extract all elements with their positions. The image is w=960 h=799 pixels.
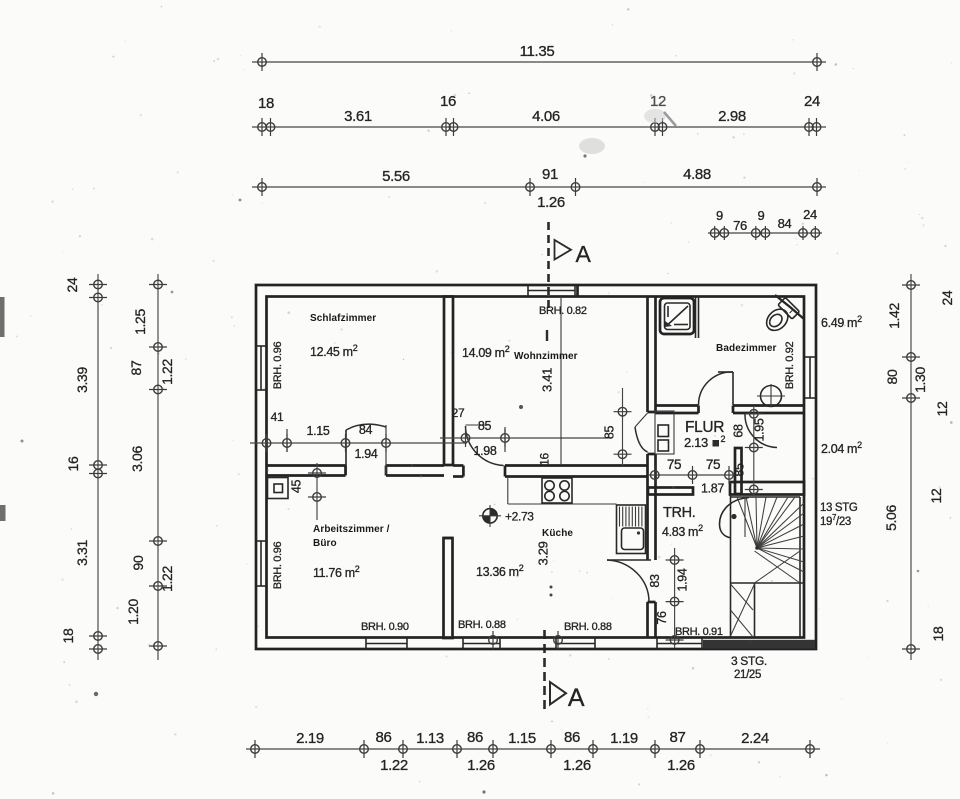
svg-text:85: 85 bbox=[603, 426, 617, 440]
left dim chain 1.25/87/3.06/90/1.20 with 1.22 bbox=[157, 274, 159, 660]
svg-text:1.22: 1.22 bbox=[159, 566, 175, 592]
svg-text:A: A bbox=[576, 241, 592, 267]
wall flur/WC bbox=[735, 448, 742, 494]
svg-text:1.15: 1.15 bbox=[307, 424, 330, 438]
door flur-badezimmer bbox=[732, 372, 734, 405]
svg-text:1.26: 1.26 bbox=[667, 757, 695, 774]
wall flur south bbox=[648, 488, 693, 495]
dim flur 75/75 and 1.87 bbox=[648, 474, 741, 476]
svg-text:80: 80 bbox=[884, 369, 900, 384]
svg-text:1.13: 1.13 bbox=[416, 730, 444, 747]
kueche 3.29 marks bbox=[550, 586, 553, 589]
svg-text:3.06: 3.06 bbox=[129, 446, 145, 472]
dim arbeitszimmer oven 45 bbox=[316, 463, 318, 520]
window arbeitszimmer (left wall, BRH 0.96) bbox=[260, 541, 262, 586]
svg-text:BRH. 0.88: BRH. 0.88 bbox=[458, 619, 506, 631]
svg-text:1.22: 1.22 bbox=[159, 359, 175, 385]
svg-text:76: 76 bbox=[655, 611, 669, 625]
shower/appliance badezimmer bbox=[660, 298, 694, 334]
svg-text:Badezimmer: Badezimmer bbox=[716, 343, 776, 354]
dim chain 18/3.61/16/4.06/12/2.98/24 bbox=[252, 126, 826, 128]
svg-text:41: 41 bbox=[271, 410, 284, 424]
svg-text:1.22: 1.22 bbox=[380, 757, 408, 774]
svg-text:76: 76 bbox=[733, 218, 747, 233]
svg-text:1.19: 1.19 bbox=[610, 730, 638, 747]
svg-text:5.56: 5.56 bbox=[382, 168, 410, 185]
wall wohnzimmer/kueche with door opening bbox=[453, 464, 463, 467]
svg-text:5.06: 5.06 bbox=[883, 505, 899, 531]
svg-text:91: 91 bbox=[542, 166, 558, 183]
pier mark right of top window bbox=[576, 285, 579, 297]
svg-text:+2.73: +2.73 bbox=[505, 510, 534, 524]
window wohnzimmer (top wall, BRH 0.82) bbox=[528, 290, 575, 292]
svg-text:18: 18 bbox=[930, 626, 946, 641]
svg-text:68: 68 bbox=[732, 424, 746, 438]
svg-text:BRH. 0.88: BRH. 0.88 bbox=[564, 621, 612, 633]
svg-text:1.94: 1.94 bbox=[355, 447, 378, 461]
svg-text:27: 27 bbox=[452, 406, 465, 420]
svg-text:84: 84 bbox=[359, 423, 373, 437]
chimney symbol kueche bbox=[483, 509, 497, 523]
dim kueche-TRH door 83/1.94/76 (vertical) bbox=[674, 548, 676, 648]
door wohnzimmer-flur (85) bbox=[635, 413, 648, 427]
svg-text:2.19: 2.19 bbox=[296, 730, 324, 747]
svg-text:18: 18 bbox=[60, 628, 76, 643]
svg-text:1.42: 1.42 bbox=[886, 303, 902, 329]
section line A (bottom) bbox=[543, 630, 546, 712]
svg-text:24: 24 bbox=[939, 290, 955, 305]
dim WC door 68/1.95/85 (vertical) bbox=[753, 406, 755, 496]
svg-text:Küche: Küche bbox=[542, 528, 573, 539]
svg-text:1.98: 1.98 bbox=[474, 444, 497, 458]
svg-text:19: 19 bbox=[820, 516, 832, 528]
svg-text:TRH.: TRH. bbox=[663, 505, 695, 521]
svg-text:/23: /23 bbox=[836, 516, 851, 528]
left dim chain 24/3.39/16/3.31/18 bbox=[97, 274, 99, 660]
right dim chain 1.42/80/5.06 and 24/1.30/12/12/18 bbox=[910, 274, 912, 660]
svg-text:75: 75 bbox=[667, 457, 681, 472]
wall schlafzimmer/wohnzimmer bbox=[444, 297, 453, 466]
svg-text:BRH. 0.91: BRH. 0.91 bbox=[675, 626, 723, 638]
svg-text:24: 24 bbox=[804, 93, 820, 110]
kueche sink unit bbox=[617, 505, 646, 554]
svg-text:3.29: 3.29 bbox=[536, 541, 551, 565]
svg-text:16: 16 bbox=[65, 456, 81, 471]
svg-text:86: 86 bbox=[467, 729, 483, 746]
svg-text:24: 24 bbox=[64, 277, 80, 292]
winder stair TRH bbox=[730, 494, 732, 638]
svg-text:1.26: 1.26 bbox=[563, 757, 591, 774]
svg-text:2.04 m2: 2.04 m2 bbox=[821, 440, 862, 456]
door kueche-TRH bbox=[607, 559, 651, 561]
lower flight 3 STG bbox=[731, 584, 755, 636]
svg-text:1.15: 1.15 bbox=[508, 730, 536, 747]
svg-text:6.49 m2: 6.49 m2 bbox=[821, 314, 862, 330]
svg-text:BRH. 0.96: BRH. 0.96 bbox=[272, 341, 284, 389]
svg-text:1.94: 1.94 bbox=[676, 568, 690, 591]
svg-text:A: A bbox=[568, 684, 585, 712]
wohnzimmer interior line + 3.41 bbox=[560, 297, 562, 466]
stair curve + newel bbox=[720, 498, 750, 539]
svg-text:1.26: 1.26 bbox=[467, 757, 495, 774]
svg-text:75: 75 bbox=[706, 457, 720, 472]
svg-text:3.41: 3.41 bbox=[540, 368, 555, 392]
section marker triangle A bottom bbox=[550, 682, 566, 705]
svg-text:87: 87 bbox=[670, 729, 686, 746]
svg-text:2.98: 2.98 bbox=[718, 108, 746, 125]
ticks on bottom wall bbox=[489, 636, 498, 645]
svg-text:86: 86 bbox=[564, 729, 580, 746]
svg-text:21/25: 21/25 bbox=[734, 669, 761, 681]
toilet badezimmer (rotated 45) bbox=[762, 297, 800, 335]
wall badezimmer south bbox=[656, 404, 699, 407]
svg-text:3.61: 3.61 bbox=[344, 108, 372, 125]
svg-text:13 STG: 13 STG bbox=[820, 502, 858, 514]
oven arbeitszimmer bbox=[268, 478, 289, 499]
svg-text:BRH. 0.82: BRH. 0.82 bbox=[539, 305, 587, 317]
svg-text:BRH. 0.96: BRH. 0.96 bbox=[272, 541, 284, 589]
svg-text:85: 85 bbox=[478, 419, 492, 433]
dim wohnzimmer-flur door 85 (vertical) bbox=[622, 388, 624, 466]
dim chain 9/76/9/84/24 bbox=[708, 232, 822, 234]
outer wall bbox=[256, 285, 816, 649]
svg-text:BRH. 0.92: BRH. 0.92 bbox=[784, 341, 796, 389]
svg-text:1.20: 1.20 bbox=[125, 599, 141, 625]
wall wohnzimmer-kueche / bad-flur-TRH (vertical x648) bbox=[646, 297, 649, 413]
svg-text:3.39: 3.39 bbox=[74, 367, 90, 393]
window bottom wall kueche east (BRH 0.88) bbox=[556, 643, 595, 645]
svg-text:BRH. 0.90: BRH. 0.90 bbox=[361, 621, 409, 633]
kueche counter bbox=[507, 478, 509, 504]
door wohnzimmer-kueche (85) bbox=[466, 424, 490, 426]
svg-text:12.45 m2: 12.45 m2 bbox=[310, 343, 358, 359]
wall schlafzimmer/arbeitszimmer with door opening bbox=[267, 464, 346, 467]
svg-text:3 STG.: 3 STG. bbox=[731, 654, 767, 668]
window schlafzimmer (left wall, BRH 0.96) bbox=[260, 346, 262, 390]
svg-text:Schlafzimmer: Schlafzimmer bbox=[310, 313, 376, 324]
svg-text:84: 84 bbox=[778, 216, 792, 231]
window bottom wall kueche west (BRH 0.88) bbox=[463, 643, 500, 645]
dim chain schlafzimmer doors 41/1.15/84/1.94 bbox=[250, 442, 467, 444]
svg-text:12: 12 bbox=[934, 401, 950, 416]
bottom dim chain 2.19/86/1.13/86/1.15/86/1.19/87/2.24 bbox=[246, 748, 820, 750]
stair treads fan bbox=[737, 497, 757, 548]
stove 4 burners bbox=[542, 478, 572, 503]
svg-text:1.30: 1.30 bbox=[912, 367, 928, 393]
svg-text:24: 24 bbox=[803, 207, 817, 222]
svg-text:FLUR: FLUR bbox=[685, 419, 724, 436]
dim chain 5.56/91/4.88 with 1.26 bbox=[252, 186, 826, 188]
svg-text:16: 16 bbox=[538, 453, 552, 466]
svg-text:86: 86 bbox=[376, 729, 392, 746]
svg-text:2: 2 bbox=[721, 434, 726, 444]
svg-text:2.24: 2.24 bbox=[741, 730, 769, 747]
section line A (top) bbox=[547, 222, 550, 310]
svg-text:4.06: 4.06 bbox=[532, 108, 560, 125]
svg-text:18: 18 bbox=[258, 95, 274, 112]
window badezimmer (right wall, BRH 0.92) bbox=[809, 357, 811, 398]
dim chain total width 11.35 bbox=[252, 61, 826, 63]
svg-text:9: 9 bbox=[716, 208, 723, 223]
bottom wall solid band under stair bbox=[703, 640, 815, 649]
svg-text:4.88: 4.88 bbox=[683, 166, 711, 183]
door schlafzimmer (leaf + arc, 84) bbox=[345, 430, 347, 474]
dim chain wohnzimmer door 27/85/1.98 bbox=[440, 437, 610, 439]
svg-text:3.31: 3.31 bbox=[74, 540, 90, 566]
svg-text:11.76 m2: 11.76 m2 bbox=[313, 564, 360, 580]
svg-text:Arbeitszimmer /: Arbeitszimmer / bbox=[313, 524, 390, 535]
svg-text:9: 9 bbox=[758, 208, 765, 223]
window bottom wall TRH (BRH 0.91) bbox=[657, 643, 702, 645]
svg-text:2.13: 2.13 bbox=[684, 435, 708, 450]
svg-text:4.83 m2: 4.83 m2 bbox=[662, 523, 703, 539]
cabinet flur bbox=[655, 411, 674, 454]
svg-text:1.25: 1.25 bbox=[132, 309, 148, 335]
diagonal corner wall badezimmer bbox=[775, 295, 804, 319]
door flur-WC (68) bbox=[745, 414, 777, 448]
svg-text:11.35: 11.35 bbox=[520, 43, 555, 60]
window bottom wall under arbeitszimmer (BRH 0.90) bbox=[366, 643, 407, 645]
svg-text:Wohnzimmer: Wohnzimmer bbox=[514, 351, 578, 362]
svg-text:83: 83 bbox=[648, 574, 662, 588]
svg-text:87: 87 bbox=[128, 360, 144, 375]
svg-text:Büro: Büro bbox=[313, 538, 337, 549]
svg-text:14.09 m2: 14.09 m2 bbox=[462, 344, 510, 360]
svg-text:85: 85 bbox=[733, 463, 747, 477]
svg-text:12: 12 bbox=[928, 488, 944, 503]
section marker triangle A top bbox=[555, 240, 572, 260]
svg-text:1.87: 1.87 bbox=[701, 482, 724, 496]
svg-text:90: 90 bbox=[130, 555, 146, 570]
washbasin badezimmer bbox=[761, 386, 782, 407]
svg-text:45: 45 bbox=[290, 480, 304, 494]
svg-text:1.95: 1.95 bbox=[753, 418, 767, 441]
svg-text:1.26: 1.26 bbox=[537, 194, 565, 211]
wall arbeitszimmer/kueche bbox=[444, 538, 453, 638]
wall WC south / stair top bbox=[730, 482, 804, 495]
